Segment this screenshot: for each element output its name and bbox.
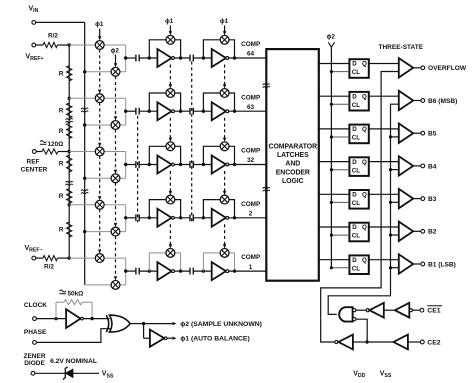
- diode D1 zener: [35, 372, 65, 374]
- resistor R ladder 6: [67, 222, 72, 237]
- wire feedback loop A21: [149, 93, 180, 111]
- node CLOCK terminal: [33, 317, 37, 321]
- svg-text:CL: CL: [352, 233, 360, 240]
- junction clock bus FF4: [330, 168, 333, 171]
- wire resistor ladder vertical: [68, 45, 70, 258]
- capacitor C21: [136, 108, 139, 115]
- buffer U11 CE1 input: [395, 303, 409, 318]
- wire latch clock bus vertical: [330, 47, 332, 268]
- svg-text:CL: CL: [352, 135, 360, 142]
- junction amp1 output row 1: [179, 56, 182, 59]
- resistor R ladder 2: [67, 103, 72, 118]
- node terminal B4: [421, 164, 425, 168]
- svg-text:COMP: COMP: [241, 254, 261, 261]
- wire feedback loop A52: [203, 253, 234, 271]
- svg-text:B5: B5: [428, 131, 437, 138]
- latch FF4 D-Q flip-flop: [349, 157, 368, 176]
- svg-text:1: 1: [249, 264, 253, 271]
- value label 50k ohm: [60, 290, 66, 292]
- svg-text:LOGIC: LOGIC: [282, 178, 304, 185]
- junction amp2 input row 4: [202, 216, 205, 219]
- latch FF7 D-Q flip-flop: [349, 255, 368, 274]
- svg-text:50kΩ: 50kΩ: [68, 290, 84, 297]
- wire CL input latch FF7: [331, 267, 349, 269]
- capacitor C12: [190, 55, 193, 62]
- svg-text:63: 63: [247, 104, 255, 111]
- switch S5b phase2 VIN: [111, 281, 120, 290]
- wire Q output latch FF4: [369, 161, 399, 163]
- svg-text:R/2: R/2: [44, 263, 54, 270]
- junction amp1 input row 3: [148, 163, 151, 166]
- junction clock bus FF3: [330, 135, 333, 138]
- svg-text:R: R: [59, 128, 64, 135]
- op-amp A21 inverter stage 1: [157, 102, 171, 120]
- wire buffer output B3: [413, 198, 421, 200]
- junction clock bus FF7: [330, 266, 333, 269]
- switch S3c phase1 feedback A31: [166, 142, 175, 151]
- wire amp1 out row 2: [174, 110, 190, 112]
- capacitor C11: [136, 55, 139, 62]
- svg-text:D: D: [352, 257, 357, 264]
- wire enable stub B5: [391, 136, 399, 138]
- wire comparator output row 1: [229, 57, 267, 59]
- wire amp1 out row 1: [174, 57, 190, 59]
- wire CE2 to buffer: [369, 341, 394, 343]
- switch S1c phase1 feedback A11: [166, 35, 175, 44]
- switch S3d phase1 feedback A32: [220, 142, 229, 151]
- junction clock buffer output: [90, 317, 93, 320]
- wire sampling branch row 5 (gray net): [69, 258, 126, 285]
- svg-text:B2: B2: [428, 229, 437, 236]
- svg-text:D: D: [352, 126, 357, 133]
- wire enable stub B3: [391, 201, 399, 203]
- svg-text:32: 32: [247, 157, 255, 164]
- op-amp A51 inverter stage 1: [157, 262, 171, 280]
- svg-text:R/2: R/2: [48, 33, 58, 40]
- wire feedback loop A31: [149, 146, 180, 164]
- buffer U8 three-state output B1 (LSB): [399, 254, 413, 273]
- junction ladder tap 5: [68, 256, 71, 259]
- switch S4d phase1 feedback A42: [220, 195, 229, 204]
- break symbol box edge lower: [263, 187, 270, 188]
- capacitor C32: [190, 161, 193, 168]
- junction enable bus B2: [389, 233, 392, 236]
- svg-text:R: R: [59, 70, 64, 77]
- node CE2 terminal: [420, 340, 424, 344]
- svg-text:D: D: [352, 192, 357, 199]
- op-amp A22 inverter stage 2: [212, 102, 226, 120]
- svg-text:COMP: COMP: [241, 41, 261, 48]
- buffer U6 three-state output B3: [399, 189, 413, 208]
- junction branch output row 3: [124, 163, 127, 166]
- svg-text:D: D: [352, 61, 357, 68]
- junction amp2 output row 2: [233, 110, 236, 113]
- svg-text:CE1: CE1: [427, 308, 440, 315]
- wire enable bus B (B6-B1 enable): [328, 104, 399, 314]
- wire XOR output: [130, 323, 144, 325]
- wire PHASE input: [36, 329, 111, 343]
- wire cap2 to amp2 row 2: [193, 110, 211, 112]
- switch S2c phase1 feedback A21: [166, 89, 175, 98]
- gate U15 XOR: [106, 315, 108, 332]
- op-amp A12 inverter stage 2: [212, 49, 226, 67]
- op-amp A32 inverter stage 2: [212, 156, 226, 174]
- break symbol on VIN bus upper: [81, 108, 88, 109]
- wire CL input latch FF5: [331, 201, 349, 203]
- switch S5a phase1 ladder: [95, 254, 104, 263]
- wire Q output latch FF5: [369, 193, 399, 195]
- junction VIN bus row 2: [83, 123, 86, 126]
- wire buffer to XOR: [83, 318, 109, 320]
- capacitor C52: [190, 268, 193, 275]
- resistor R ladder 3: [67, 123, 72, 138]
- junction amp2 input row 3: [202, 163, 205, 166]
- switch S3b phase2 VIN: [111, 174, 120, 183]
- capacitor C51: [136, 268, 139, 275]
- inverter U12 CE2 path: [335, 340, 338, 343]
- wire D input latch FF1: [319, 63, 350, 65]
- wire feedback loop A42: [203, 200, 234, 218]
- svg-text:CL: CL: [352, 69, 360, 76]
- svg-text:B4: B4: [428, 163, 437, 170]
- dashed control line phi1 ladder switches: [99, 29, 101, 37]
- wire D input latch FF6: [319, 226, 350, 228]
- op-amp A42 inverter stage 2: [212, 209, 226, 227]
- latch FF1 D-Q flip-flop: [349, 59, 368, 78]
- svg-text:Q: Q: [362, 93, 367, 100]
- wire comparator output row 2: [229, 110, 267, 112]
- junction amp1 input row 4: [148, 216, 151, 219]
- wire sampling branch row 2 (gray net): [69, 98, 126, 125]
- junction ladder tap 2: [68, 97, 71, 100]
- junction amp1 input row 5: [148, 269, 151, 272]
- resistor 50k feedback (gray): [56, 300, 92, 319]
- svg-text:D: D: [352, 224, 357, 231]
- node terminal B2: [421, 229, 425, 233]
- svg-text:ϕ1: ϕ1: [220, 18, 229, 25]
- junction amp2 input row 5: [202, 269, 205, 272]
- junction amp1 input row 2: [148, 110, 151, 113]
- buffer U3 three-state output B6 (MSB): [399, 91, 413, 110]
- junction VIN bus row 3: [83, 177, 86, 180]
- svg-text:ϕ2 (SAMPLE UNKNOWN): ϕ2 (SAMPLE UNKNOWN): [180, 321, 262, 328]
- svg-text:B1 (LSB): B1 (LSB): [428, 261, 456, 268]
- node terminal B5: [421, 131, 425, 135]
- svg-text:LATCHES: LATCHES: [277, 152, 309, 159]
- resistor R/2 bottom: [36, 257, 43, 259]
- op-amp A52 inverter stage 2: [212, 262, 226, 280]
- wire VIN horizontal: [36, 21, 85, 23]
- svg-text:Q: Q: [362, 224, 367, 231]
- wire cap2 to amp2 row 3: [193, 164, 211, 166]
- svg-text:B6 (MSB): B6 (MSB): [428, 98, 457, 105]
- svg-text:B3: B3: [428, 196, 437, 203]
- dashed line through C1 capacitors: [137, 116, 139, 223]
- latch FF6 D-Q flip-flop: [349, 223, 368, 242]
- svg-text:2: 2: [249, 211, 253, 218]
- wire enable stub B2: [391, 234, 399, 236]
- svg-text:R: R: [59, 108, 64, 115]
- wire amp1 out row 4: [174, 217, 190, 219]
- svg-text:COMP: COMP: [241, 201, 261, 208]
- svg-text:R: R: [59, 227, 64, 234]
- junction clock buffer input: [54, 317, 57, 320]
- svg-text:CL: CL: [352, 265, 360, 272]
- resistor R ladder 5: [67, 189, 72, 204]
- wire Q output latch FF1: [369, 63, 399, 65]
- wire sampling branch row 1 (gray net): [69, 45, 126, 72]
- buffer U2 three-state output OVERFLOW: [399, 58, 413, 77]
- junction ladder tap 3: [68, 150, 71, 153]
- wire cap to amp row 5: [139, 270, 157, 272]
- wire CL input latch FF4: [331, 169, 349, 171]
- svg-text:6.2V NOMINAL: 6.2V NOMINAL: [50, 358, 97, 365]
- svg-text:THREE-STATE: THREE-STATE: [379, 44, 424, 51]
- node PHASE terminal: [33, 341, 37, 345]
- buffer U7 three-state output B2: [399, 222, 413, 241]
- wire Q output latch FF3: [369, 128, 399, 130]
- svg-text:CL: CL: [352, 102, 360, 109]
- resistor R/2 top: [36, 44, 43, 46]
- junction amp1 output row 4: [179, 216, 182, 219]
- buffer U5 three-state output B4: [399, 156, 413, 175]
- buffer U13 CE2 input: [394, 335, 408, 350]
- wire cap2 to amp2 row 5: [193, 270, 211, 272]
- wire D input latch FF5: [319, 193, 350, 195]
- junction clock bus FF6: [330, 234, 333, 237]
- svg-text:R: R: [59, 193, 64, 200]
- switch S3a phase1 ladder: [95, 147, 104, 156]
- svg-text:AND: AND: [285, 161, 300, 168]
- svg-text:Q: Q: [362, 61, 367, 68]
- wire feedback loop A32: [203, 146, 234, 164]
- node VIN terminal: [32, 21, 36, 25]
- switch S4c phase1 feedback A41: [166, 195, 175, 204]
- junction VIN bus row 1: [83, 70, 86, 73]
- junction amp2 output row 4: [233, 216, 236, 219]
- junction VIN bus row 4: [83, 230, 86, 233]
- wire VIN bus vertical: [84, 22, 86, 285]
- resistor R ladder 1: [67, 66, 72, 81]
- svg-text:64: 64: [247, 51, 255, 58]
- svg-text:ϕ2: ϕ2: [327, 34, 336, 41]
- wire D input latch FF7: [319, 259, 350, 261]
- junction clock bus FF2: [330, 103, 333, 106]
- wire enable bus A (overflow enable): [321, 72, 399, 343]
- latch FF5 D-Q flip-flop: [349, 190, 368, 209]
- wire feedback loop A51: [149, 253, 180, 271]
- wire D input latch FF2: [319, 95, 350, 97]
- svg-text:COMPARATOR: COMPARATOR: [269, 143, 318, 150]
- capacitor C31: [136, 161, 139, 168]
- wire buffer output B6 (MSB): [413, 100, 421, 102]
- wire Q output latch FF2: [369, 95, 399, 97]
- svg-text:ϕ1 (AUTO BALANCE): ϕ1 (AUTO BALANCE): [180, 336, 250, 343]
- arrow into latch clock line: [328, 42, 334, 47]
- op-amp U14 clock buffer: [66, 309, 80, 328]
- switch S2d phase1 feedback A22: [220, 89, 229, 98]
- wire CL input latch FF6: [331, 234, 349, 236]
- switch S4a phase1 ladder: [95, 200, 104, 209]
- resistor R ladder 4: [67, 155, 72, 172]
- dashed control line phi1 feedback stage1: [169, 26, 171, 32]
- wire comparator output row 5: [229, 270, 267, 272]
- switch S5d phase1 feedback A52: [220, 249, 229, 258]
- junction VIN bus row 5: [0, 0, 1, 1]
- value label 120 ohm: [40, 141, 46, 143]
- svg-text:R: R: [59, 161, 64, 168]
- switch S1b phase2 VIN: [111, 67, 120, 76]
- junction enable bus B4: [389, 168, 392, 171]
- junction branch output row 2: [124, 110, 127, 113]
- wire arrow to phi2 label: [144, 323, 172, 325]
- inverter U16 phi1: [150, 330, 164, 347]
- block U1 comparator latches and encoder logic: [266, 49, 319, 281]
- wire CLOCK input: [36, 318, 66, 320]
- capacitor C41: [136, 214, 139, 221]
- switch S5c phase1 feedback A51: [166, 249, 175, 258]
- wire amp1 out row 3: [174, 164, 190, 166]
- wire NAND upper input: [356, 309, 366, 311]
- node terminal OVERFLOW: [421, 66, 425, 70]
- wire CL input latch FF2: [331, 103, 349, 105]
- node VREF+ terminal: [32, 43, 36, 47]
- svg-text:ϕ2: ϕ2: [111, 48, 120, 55]
- wire CL input latch FF3: [331, 136, 349, 138]
- inverter U10 CE1 path: [366, 309, 369, 312]
- wire cap to amp row 2: [139, 110, 157, 112]
- svg-text:ϕ1: ϕ1: [165, 18, 174, 25]
- junction amp1 output row 2: [179, 110, 182, 113]
- svg-text:CLOCK: CLOCK: [24, 302, 47, 309]
- wire Q output latch FF7: [369, 259, 399, 261]
- junction amp2 output row 3: [233, 163, 236, 166]
- wire sampling branch row 4 (gray net): [69, 205, 126, 232]
- svg-text:OVERFLOW: OVERFLOW: [428, 65, 467, 72]
- svg-text:CE2: CE2: [427, 340, 440, 347]
- svg-text:CENTER: CENTER: [21, 167, 48, 174]
- svg-text:DIODE: DIODE: [24, 360, 45, 367]
- op-amp A41 inverter stage 1: [157, 209, 171, 227]
- wire to phi1 inverter: [143, 324, 145, 339]
- node REF CENTER terminal: [32, 150, 36, 154]
- wire buffer output B5: [413, 132, 421, 134]
- junction amp2 input row 2: [202, 110, 205, 113]
- wire sampling branch row 3 (gray net): [69, 152, 126, 179]
- wire feedback loop A12: [203, 40, 234, 58]
- svg-text:120Ω: 120Ω: [48, 141, 64, 148]
- wire buffer output OVERFLOW: [413, 67, 421, 69]
- junction amp2 input row 1: [202, 56, 205, 59]
- node terminal B6 (MSB): [421, 99, 425, 103]
- switch S2a phase1 ladder: [95, 94, 104, 103]
- bubble NAND input lower: [353, 318, 356, 321]
- junction clock bus FF1: [330, 70, 333, 73]
- junction branch output row 1: [124, 56, 127, 59]
- node terminal B3: [421, 197, 425, 201]
- svg-text:CL: CL: [352, 200, 360, 207]
- op-amp A31 inverter stage 1: [157, 156, 171, 174]
- svg-text:ZENER: ZENER: [23, 353, 45, 360]
- switch S4b phase2 VIN: [111, 227, 120, 236]
- break symbol box edge upper: [263, 84, 270, 85]
- gate U9 NAND (left facing AND with inverted inputs): [339, 307, 352, 321]
- junction enable bus B5: [389, 135, 392, 138]
- svg-text:ENCODER: ENCODER: [276, 169, 310, 176]
- wire cap2 to amp2 row 1: [193, 57, 211, 59]
- wire cap to amp row 1: [139, 57, 157, 59]
- svg-text:Q: Q: [362, 159, 367, 166]
- switch S1a phase1 ladder: [95, 41, 104, 50]
- wire comparator output row 3: [229, 164, 267, 166]
- wire Q output latch FF6: [369, 226, 399, 228]
- wire CL input latch FF1: [331, 71, 349, 73]
- wire feedback loop A22: [203, 93, 234, 111]
- capacitor C42: [190, 214, 193, 221]
- wire buffer output B1 (LSB): [413, 263, 421, 265]
- node VREF- terminal: [32, 256, 36, 260]
- junction CE2 node: [365, 340, 368, 343]
- dashed control line phi2 VIN switches: [115, 55, 117, 64]
- break symbol ladder lower: [66, 181, 73, 182]
- wire arrow to phi1 label: [167, 337, 172, 339]
- wire D input latch FF3: [319, 128, 350, 130]
- wire cap to amp row 4: [139, 217, 157, 219]
- buffer U4 three-state output B5: [399, 124, 413, 143]
- wire feedback loop A11: [149, 40, 180, 58]
- wire enable stub B1 (LSB): [391, 267, 399, 269]
- junction amp2 output row 1: [233, 56, 236, 59]
- svg-text:COMP: COMP: [241, 148, 261, 155]
- junction amp1 input row 1: [148, 56, 151, 59]
- wire buffer output B2: [413, 230, 421, 232]
- svg-text:D: D: [352, 159, 357, 166]
- wire buffer output B4: [413, 165, 421, 167]
- dashed control line phi1 feedback stage2: [224, 26, 226, 32]
- latch FF2 D-Q flip-flop: [349, 92, 368, 111]
- svg-text:Q: Q: [362, 126, 367, 133]
- switch S1d phase1 feedback A12: [220, 35, 229, 44]
- junction amp2 output row 5: [233, 269, 236, 272]
- resistor 120 ohm: [36, 151, 42, 153]
- node ZENER terminal: [31, 371, 35, 375]
- svg-text:PHASE: PHASE: [24, 329, 47, 336]
- wire cap to amp row 3: [139, 164, 157, 166]
- wire D input latch FF4: [319, 161, 350, 163]
- svg-text:REF: REF: [27, 159, 40, 166]
- op-amp A11 inverter stage 1: [157, 49, 171, 67]
- capacitor C22: [190, 108, 193, 115]
- svg-text:CL: CL: [352, 167, 360, 174]
- junction enable bus B1 (LSB): [389, 266, 392, 269]
- wire comparator output row 4: [229, 217, 267, 219]
- svg-text:COMP: COMP: [241, 94, 261, 101]
- switch S2b phase2 VIN: [111, 121, 120, 130]
- dashed line through C2 capacitors: [191, 62, 193, 223]
- wire feedback loop A41: [149, 200, 180, 218]
- junction clock bus FF5: [330, 201, 333, 204]
- svg-text:Q: Q: [362, 257, 367, 264]
- junction amp1 output row 5: [179, 269, 182, 272]
- junction branch output row 5: [124, 269, 127, 272]
- break symbol ladder upper: [66, 119, 73, 120]
- break symbol on VIN bus lower: [81, 190, 88, 191]
- wire enable stub B4: [391, 169, 399, 171]
- junction ladder tap 1: [68, 43, 71, 46]
- wire amp1 out row 5: [174, 270, 190, 272]
- junction amp1 output row 3: [179, 163, 182, 166]
- svg-text:D: D: [352, 93, 357, 100]
